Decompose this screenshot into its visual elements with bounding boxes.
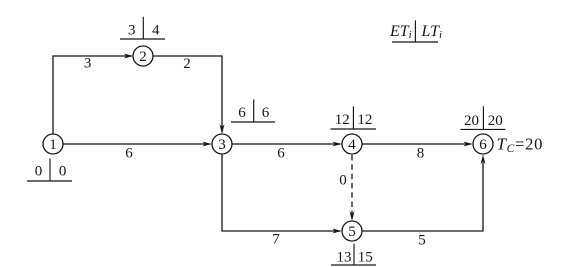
- ET/LT rule node 6: [461, 106, 506, 129]
- arrowhead 2-3: [220, 125, 225, 135]
- node 4 circle: [342, 134, 362, 154]
- node 3 circle: [212, 134, 232, 154]
- svg-text:20: 20: [488, 113, 503, 129]
- arrowhead 4-6: [464, 142, 474, 147]
- svg-text:6: 6: [262, 105, 270, 121]
- svg-text:0: 0: [35, 163, 43, 179]
- svg-text:7: 7: [272, 231, 280, 247]
- svg-text:2: 2: [183, 56, 191, 72]
- svg-text:ETi: ETi: [389, 23, 412, 41]
- svg-text:8: 8: [417, 145, 425, 161]
- svg-text:4: 4: [152, 22, 160, 38]
- ET/LT rule node 2: [120, 17, 165, 39]
- legend rule: [392, 20, 438, 42]
- wire 1-2: [53, 56, 126, 134]
- node 2 circle: [133, 46, 153, 66]
- ET/LT rule node 3: [231, 100, 275, 123]
- svg-text:15: 15: [358, 249, 373, 265]
- node 5 circle: [342, 221, 362, 241]
- svg-text:12: 12: [357, 112, 372, 128]
- svg-text:6: 6: [125, 145, 133, 161]
- node 1 circle: [43, 134, 63, 154]
- svg-text:6: 6: [277, 145, 285, 161]
- ET/LT rule node 5: [331, 244, 376, 265]
- svg-text:0: 0: [59, 163, 67, 179]
- wire 5-6: [362, 163, 483, 232]
- svg-text:3: 3: [218, 137, 226, 153]
- svg-text:3: 3: [128, 22, 136, 38]
- node 6 circle: [473, 134, 493, 154]
- ET/LT rule node 4: [331, 106, 377, 129]
- svg-text:TC=20: TC=20: [497, 135, 544, 156]
- svg-text:13: 13: [337, 249, 352, 265]
- arrowhead 3-5: [333, 229, 343, 234]
- svg-text:5: 5: [418, 232, 426, 248]
- svg-text:6: 6: [479, 137, 487, 153]
- arrowhead 3-4: [333, 142, 343, 147]
- wire 4-6: [362, 143, 466, 145]
- svg-text:3: 3: [84, 56, 92, 72]
- arrowhead 1-2: [124, 54, 134, 59]
- svg-text:LTi: LTi: [421, 23, 443, 41]
- svg-text:1: 1: [49, 137, 57, 153]
- svg-text:0: 0: [339, 172, 347, 188]
- arrowhead 4-5: [350, 212, 355, 222]
- svg-text:12: 12: [335, 112, 350, 128]
- arrowhead 1-3: [203, 142, 213, 147]
- svg-text:5: 5: [348, 224, 356, 240]
- wire 1-3: [63, 143, 205, 145]
- svg-text:6: 6: [238, 105, 246, 121]
- wire 4-5 dashed: [351, 155, 353, 214]
- ET/LT rule node 1: [27, 159, 72, 182]
- wire 3-4: [232, 143, 335, 145]
- wire 2-3: [153, 56, 222, 127]
- svg-text:20: 20: [464, 113, 479, 129]
- wire 3-5: [222, 154, 335, 231]
- svg-text:4: 4: [348, 137, 356, 153]
- svg-text:2: 2: [139, 49, 147, 65]
- arrowhead 5-6: [481, 155, 486, 165]
